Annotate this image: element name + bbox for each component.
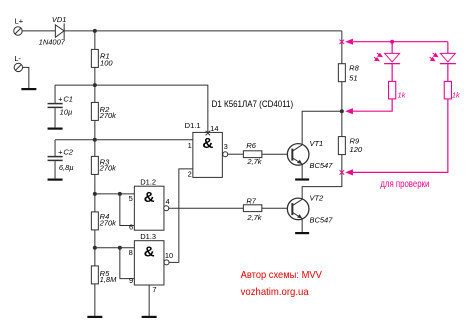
svg-text:C1: C1 [63, 94, 73, 103]
wire rail3 pin5 [95, 193, 135, 195]
wire VT1 emitter [301, 164, 303, 178]
wire L- to ground [22, 67, 29, 88]
svg-text:D1.1: D1.1 [185, 121, 201, 130]
wire rail2 [55, 139, 193, 141]
svg-text:L+: L+ [15, 16, 24, 25]
wire R2 to rail2 [94, 120, 96, 156]
wire VT2 emitter [301, 219, 303, 233]
svg-text:2,7k: 2,7k [246, 213, 262, 222]
pink node junction [390, 40, 394, 44]
LED HL1 [384, 42, 400, 82]
wire pin10 to feedback [169, 261, 179, 263]
pink wire LED1 bottom [353, 99, 392, 111]
svg-text:6,8µ: 6,8µ [59, 163, 74, 172]
svg-text:для проверки: для проверки [380, 179, 429, 190]
LED HL2 [440, 42, 456, 82]
pink wire LED2 bottom [353, 99, 448, 172]
capacitor C1 [48, 85, 63, 127]
resistor R4 [91, 212, 98, 230]
svg-text:1k: 1k [452, 91, 461, 100]
svg-text:5: 5 [129, 194, 133, 203]
svg-text:7: 7 [152, 285, 156, 294]
wire VT2 collector [302, 155, 342, 200]
op-amp gate D1.1 [193, 132, 223, 177]
svg-text:2: 2 [188, 169, 192, 178]
ground pin7 [142, 316, 157, 318]
wire R7 to VT2 base [262, 207, 288, 209]
svg-text:L-: L- [14, 54, 21, 63]
wire pin 2 feedback top [179, 169, 193, 263]
svg-text:R6: R6 [246, 141, 256, 150]
svg-text:10µ: 10µ [60, 107, 73, 116]
wire pin9 branch [120, 248, 135, 279]
svg-text:VD1: VD1 [52, 15, 67, 24]
node rail2 junction [93, 138, 97, 142]
resistor R8 [338, 64, 345, 82]
svg-text:1,8M: 1,8M [100, 275, 117, 284]
wire pin 7 [148, 285, 150, 316]
pink X mark bottom [340, 170, 345, 174]
wire pin4 to R7 [169, 207, 244, 209]
ground VT2 [295, 232, 309, 234]
pin 10 bubble [164, 260, 169, 265]
svg-text:3: 3 [224, 142, 228, 151]
terminal L+ [14, 27, 22, 35]
ground VT1 [295, 178, 309, 180]
pink wire top rail [353, 41, 448, 43]
ground R5 [87, 316, 102, 318]
resistor R9 [338, 137, 345, 155]
LED HL1 light arrows [374, 53, 382, 61]
svg-text:&: & [144, 243, 155, 260]
wire R6 to VT1 base [262, 153, 288, 155]
wire rail4 pin8 [95, 247, 135, 249]
resistor 1k first [389, 81, 396, 99]
svg-text:1N4007: 1N4007 [39, 38, 66, 47]
svg-text:6: 6 [129, 223, 133, 232]
svg-text:1: 1 [188, 141, 192, 150]
svg-text:R8: R8 [349, 63, 359, 72]
ground C1 [48, 127, 63, 129]
wire rail1 [55, 85, 208, 132]
svg-text:1k: 1k [398, 91, 407, 100]
svg-text:14: 14 [210, 124, 218, 133]
wire VT1 collector [302, 111, 342, 145]
svg-text:R7: R7 [246, 196, 256, 205]
wire R5 to ground [94, 284, 96, 316]
svg-text:C2: C2 [63, 147, 73, 156]
wire pin3 to R6 [228, 153, 244, 155]
svg-text:&: & [202, 135, 213, 152]
svg-text:&: & [144, 189, 155, 206]
wire R1 to rail1 [94, 67, 96, 102]
pink arrow middle [345, 108, 353, 114]
svg-text:BC547: BC547 [309, 216, 333, 225]
svg-text:D1.2: D1.2 [140, 178, 156, 187]
wire right vertical top [341, 31, 343, 64]
svg-text:D1.3: D1.3 [140, 232, 156, 241]
svg-text:9: 9 [129, 276, 133, 285]
wire main left column top [94, 31, 96, 50]
pink X mark top [340, 40, 345, 44]
node pin6 branch junction [118, 192, 122, 196]
wire R3 to rail3 [94, 174, 96, 212]
svg-text:51: 51 [349, 74, 357, 83]
node rail4 junction [93, 246, 97, 250]
capacitor C2 [48, 140, 63, 179]
diode VD1 [55, 23, 64, 39]
svg-text:120: 120 [350, 145, 363, 154]
svg-text:100: 100 [100, 58, 113, 67]
ground C2 [48, 178, 63, 180]
pink arrow bottom [345, 169, 353, 175]
terminal L- [14, 63, 22, 71]
node collector junction [340, 109, 344, 113]
resistor 1k second [444, 81, 451, 99]
svg-text:2,7k: 2,7k [246, 157, 262, 166]
svg-text:vozhatim.org.ua: vozhatim.org.ua [241, 286, 309, 298]
node pin9 branch junction [118, 246, 122, 250]
pin 3 bubble [223, 152, 228, 157]
wire L+ to diode [22, 30, 56, 32]
node rail1 junction [93, 83, 97, 87]
svg-text:D1 К561ЛА7 (CD4011): D1 К561ЛА7 (CD4011) [212, 99, 293, 109]
node rail3 junction [93, 192, 97, 196]
resistor R3 [91, 156, 98, 174]
LED HL2 light arrows [430, 53, 438, 61]
node top-left junction [93, 29, 97, 33]
resistor R2 [91, 102, 98, 120]
svg-text:270k: 270k [99, 164, 118, 173]
resistor R6 [243, 151, 262, 158]
wire pin6 branch [120, 194, 135, 226]
svg-text:BC547: BC547 [309, 161, 333, 170]
pin 14 X mark [206, 131, 210, 135]
wire R4 to rail4 [94, 230, 96, 266]
pink arrow top [345, 39, 353, 45]
wire R8 to junction [341, 82, 343, 137]
svg-text:VT2: VT2 [309, 194, 324, 203]
resistor R5 [91, 266, 98, 284]
svg-text:4: 4 [166, 197, 170, 206]
op-amp gate D1.2 [134, 186, 164, 230]
resistor R1 [91, 49, 98, 67]
transistor VT2 [287, 198, 309, 220]
wire top rail [64, 30, 342, 32]
svg-text:8: 8 [129, 248, 133, 257]
ground L- [21, 88, 36, 90]
svg-text:Автор схемы: MVV: Автор схемы: MVV [241, 269, 322, 281]
transistor VT1 [287, 144, 309, 166]
resistor R7 [243, 205, 262, 212]
svg-text:270k: 270k [99, 218, 118, 227]
op-amp gate D1.3 [134, 241, 164, 285]
svg-text:10: 10 [165, 251, 173, 260]
pin 4 bubble [164, 206, 169, 211]
svg-text:VT1: VT1 [309, 139, 323, 148]
svg-text:270k: 270k [99, 111, 118, 120]
